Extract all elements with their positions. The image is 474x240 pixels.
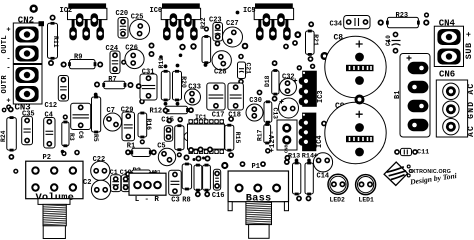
svg-text:C28: C28 xyxy=(214,68,227,76)
via pad xyxy=(179,44,185,50)
svg-text:OUTL: OUTL xyxy=(1,35,9,53)
svg-text:C12: C12 xyxy=(45,102,58,110)
capacitor C30 xyxy=(246,104,263,121)
via pad below R16 xyxy=(140,139,145,144)
P2 threaded bushing xyxy=(43,204,66,225)
via pad top right corner xyxy=(424,12,429,17)
P1 right foot xyxy=(284,202,288,211)
via pad right of R1 xyxy=(151,149,157,155)
via pad xyxy=(310,64,315,69)
svg-text:IC3: IC3 xyxy=(317,90,325,103)
P1 left foot xyxy=(228,202,232,211)
capacitor C29 xyxy=(122,112,135,141)
via pad left of R2 xyxy=(125,171,131,177)
pad square xyxy=(167,109,170,112)
svg-text:C6: C6 xyxy=(77,131,84,139)
capacitor C28 xyxy=(212,51,231,70)
B1 pads xyxy=(408,62,429,131)
via pad above C30 xyxy=(257,90,263,96)
via pad xyxy=(260,161,266,167)
connector CN1 body xyxy=(129,173,166,195)
capacitor C27 xyxy=(223,27,243,47)
IC1 pin pads xyxy=(189,119,224,154)
IC5 pin pads xyxy=(256,13,291,40)
svg-text:R12: R12 xyxy=(150,108,163,116)
resistor R15 xyxy=(225,124,234,152)
via pad right of R11 bottom xyxy=(61,62,66,67)
svg-text:R11: R11 xyxy=(52,36,59,48)
svg-text:LED2: LED2 xyxy=(330,196,346,203)
via pad xyxy=(121,60,126,65)
capacitor C25 xyxy=(130,19,150,39)
svg-text:R8: R8 xyxy=(182,196,190,204)
CN3 pad 1 xyxy=(15,67,38,83)
via pad below R13 xyxy=(296,196,302,202)
svg-text:R3: R3 xyxy=(68,133,75,141)
resistor R11 xyxy=(48,22,58,60)
resistor R8 xyxy=(182,163,191,191)
capacitor C24 xyxy=(110,51,120,74)
via pad below R15 xyxy=(228,152,234,158)
CN4 pad 1 xyxy=(437,29,460,45)
capacitor C16 xyxy=(213,169,220,190)
svg-text:C14: C14 xyxy=(317,173,330,181)
via pad above R21 xyxy=(308,21,314,27)
via pad above C21 xyxy=(238,54,244,60)
svg-text:CN6: CN6 xyxy=(439,70,455,80)
via pad below R4 xyxy=(204,191,210,197)
svg-text:IC5: IC5 xyxy=(243,7,256,15)
svg-text:R22: R22 xyxy=(200,17,207,29)
via pad above R15 xyxy=(228,116,234,122)
capacitor C7 xyxy=(104,113,122,131)
resistor R1 xyxy=(130,148,151,156)
LED LED1 xyxy=(356,175,376,195)
P2 shaft xyxy=(43,226,65,239)
svg-text:C20: C20 xyxy=(116,10,129,18)
resistor R7 xyxy=(102,81,126,89)
svg-text:SUB +: SUB + xyxy=(464,31,474,59)
via pad below R11 xyxy=(48,60,54,66)
via pad xyxy=(292,40,298,46)
via pad above R16 xyxy=(139,99,145,105)
via pad xyxy=(242,43,249,50)
resistor R4 xyxy=(203,164,211,192)
IC5 leads xyxy=(258,14,288,28)
resistor R24 xyxy=(7,116,16,151)
svg-text:R17: R17 xyxy=(257,129,264,141)
IC6 pin pads xyxy=(163,13,198,40)
via pad left of C31 xyxy=(136,83,142,89)
pad below R19 xyxy=(164,102,168,106)
svg-text:IC2: IC2 xyxy=(60,7,73,15)
via pad above R22 xyxy=(204,26,209,31)
resistor R12 xyxy=(164,106,189,114)
via pad xyxy=(297,65,302,70)
CN3 pad 2 xyxy=(15,86,38,102)
IC2 pin pads xyxy=(69,13,104,40)
connector CN2 body xyxy=(13,23,42,64)
logo XTRONIC diamond xyxy=(384,162,408,185)
capacitor C2 xyxy=(91,180,110,199)
capacitor C34 xyxy=(344,16,370,29)
via pad below R14 xyxy=(306,196,312,202)
via pad above D18 xyxy=(272,60,278,66)
CN2 pad 1 xyxy=(15,27,38,43)
via pad xyxy=(321,52,329,60)
capacitor C33 xyxy=(185,89,201,105)
svg-text:+: + xyxy=(6,27,10,35)
resistor R16 xyxy=(138,112,147,139)
capacitor C4 xyxy=(44,118,55,149)
pad above R5 xyxy=(94,93,98,97)
via pad top-left xyxy=(30,5,38,13)
capacitor C17 xyxy=(207,83,225,110)
svg-text:C34: C34 xyxy=(330,20,343,28)
via pad below R24 xyxy=(9,154,15,160)
op-amp IC5 body xyxy=(254,8,293,19)
via pad above R10 xyxy=(177,117,183,123)
resistor R23 xyxy=(386,17,420,27)
svg-text:L - R: L - R xyxy=(135,196,160,204)
capacitor C11 xyxy=(394,148,418,155)
pad xyxy=(236,11,240,15)
svg-text:R24: R24 xyxy=(0,130,7,142)
svg-text:C2: C2 xyxy=(83,179,91,187)
power amplifier IC IC6 heatsink tab xyxy=(162,3,200,8)
potentiometer P2 body xyxy=(26,161,83,199)
label + (B1) xyxy=(407,56,412,61)
IC6 leads xyxy=(165,14,195,28)
svg-text:R16: R16 xyxy=(145,119,152,131)
resistor R3 xyxy=(62,121,69,148)
svg-text:IC6: IC6 xyxy=(150,7,163,15)
potentiometer P1 body xyxy=(228,171,288,202)
resistor R20 xyxy=(173,70,182,102)
via pad right of IC4 xyxy=(321,121,327,127)
svg-text:-: - xyxy=(6,65,10,73)
via pad left of R23 xyxy=(378,20,384,26)
via pad below R17 xyxy=(265,148,271,154)
op-amp IC1 body xyxy=(184,124,224,149)
power amplifier IC IC2 heatsink tab xyxy=(68,3,106,8)
op-amp IC6 body xyxy=(161,8,200,19)
via pad xyxy=(283,44,289,50)
power amplifier IC IC5 heatsink tab xyxy=(255,3,293,8)
header IC3 body xyxy=(299,71,317,107)
resistor R13 xyxy=(293,162,301,196)
op-amp IC2 body xyxy=(68,8,107,19)
CN2 pad 2 xyxy=(15,46,38,62)
capacitor C13 (small) xyxy=(111,175,121,192)
resistor R9 xyxy=(68,60,96,69)
header IC4 body xyxy=(299,113,317,152)
logo pads xyxy=(407,165,411,169)
capacitor C12 xyxy=(58,76,68,102)
capacitor C21 xyxy=(238,62,246,79)
resistor R14 xyxy=(305,162,313,196)
svg-text:C3: C3 xyxy=(171,196,179,204)
via pads cluster above R8 xyxy=(188,147,194,153)
junction pad between C8 and C9 xyxy=(355,95,365,105)
capacitor C10 xyxy=(387,32,401,54)
pad above R14 xyxy=(307,159,311,163)
via pad below CN8 xyxy=(285,155,291,161)
svg-text:R21: R21 xyxy=(312,34,319,46)
via pad above C16 xyxy=(221,162,228,169)
via pad left of R1 xyxy=(125,149,131,155)
svg-text:C17: C17 xyxy=(212,111,225,119)
capacitor C35 xyxy=(22,116,33,144)
via pad below R21 xyxy=(308,56,314,62)
pad xyxy=(179,54,183,58)
svg-text:B1: B1 xyxy=(394,91,402,99)
via pad right of R12 xyxy=(188,107,194,113)
via pad left of R9 xyxy=(61,62,67,68)
resistor R10 xyxy=(175,124,184,151)
capacitor C31 xyxy=(140,74,157,100)
via pad xyxy=(284,159,290,165)
svg-text:C11: C11 xyxy=(417,149,429,157)
resistor R19 xyxy=(161,70,170,102)
via pad right of R2 xyxy=(151,171,157,177)
via pad above R11 xyxy=(50,15,56,21)
via pad xyxy=(149,43,155,49)
capacitor C3 xyxy=(169,170,182,195)
bridge rectifier B1 body xyxy=(400,54,430,138)
pad below R22 xyxy=(204,63,208,67)
via pad xyxy=(13,169,18,174)
pad xyxy=(202,157,205,160)
CN6 pad 2 xyxy=(443,101,459,117)
svg-text:C21: C21 xyxy=(244,63,251,75)
via pad below C21 xyxy=(238,79,244,85)
via pad xyxy=(240,161,246,167)
connector CN4 body xyxy=(434,26,463,66)
svg-text:OUTR: OUTR xyxy=(1,75,9,94)
pad xyxy=(193,158,196,161)
P2 terminal dots xyxy=(32,167,76,190)
capacitor C26 xyxy=(125,49,144,68)
pad xyxy=(159,55,163,59)
via pad right of R23 xyxy=(423,20,429,26)
resistor R2 xyxy=(130,170,151,178)
svg-text:C16: C16 xyxy=(212,192,225,200)
svg-text:P1: P1 xyxy=(252,163,260,171)
pad above R20 xyxy=(176,64,180,68)
via pad right of R7 xyxy=(128,82,134,88)
diode D18 xyxy=(272,69,279,95)
via pad below R6 xyxy=(195,191,201,197)
svg-text:IC4: IC4 xyxy=(316,135,324,148)
via pad above R24 xyxy=(8,107,14,113)
capacitor C14 xyxy=(313,153,332,172)
via pad xyxy=(190,43,196,49)
P1 threaded bushing xyxy=(246,202,272,225)
resistor R17 xyxy=(264,123,271,144)
resistor R6 xyxy=(194,164,202,192)
svg-text:R15: R15 xyxy=(234,132,241,144)
capacitor C15 xyxy=(164,126,172,142)
via pad left of CN3 label xyxy=(6,104,11,109)
P2 base xyxy=(38,199,70,205)
capacitor C20 xyxy=(118,18,128,39)
pad above R19 xyxy=(164,64,168,68)
svg-text:LED1: LED1 xyxy=(359,196,375,203)
LED LED2 xyxy=(328,174,348,194)
svg-text:R20: R20 xyxy=(180,76,187,88)
via pad right of R9 xyxy=(97,62,103,68)
via pad above C15 xyxy=(167,118,173,124)
svg-text:+12V-: +12V- xyxy=(269,130,277,152)
resistor R5 xyxy=(92,96,101,134)
svg-text:+: + xyxy=(6,98,10,106)
via pad xyxy=(149,51,155,57)
svg-text:R5: R5 xyxy=(92,134,99,142)
capacitor C9 xyxy=(325,102,386,163)
CN8 pad 2 xyxy=(282,135,291,144)
capacitor C13 xyxy=(264,100,272,123)
via pad below C23 xyxy=(215,41,221,47)
P1 shaft xyxy=(249,225,270,239)
capacitor C6 xyxy=(71,103,91,129)
connector CN8 body xyxy=(277,120,297,150)
svg-text:-: - xyxy=(6,56,10,64)
pad above R13 xyxy=(295,159,299,163)
CN1 pads xyxy=(134,182,161,189)
transistor C5 xyxy=(158,148,175,165)
via pad left edge xyxy=(2,108,7,113)
capacitor C22 xyxy=(91,161,110,180)
via pad left of R21 xyxy=(294,31,301,38)
via pad below D18 xyxy=(272,96,278,102)
via pad above R3 xyxy=(63,114,68,119)
svg-text:C15: C15 xyxy=(161,117,174,125)
connector CN3 body xyxy=(13,65,42,105)
IC2 leads xyxy=(72,14,102,28)
via pad below R3 xyxy=(61,151,66,156)
P1 terminal pads xyxy=(236,185,280,192)
CN8 pad 1 xyxy=(282,123,291,132)
capacitor C18 xyxy=(228,83,244,110)
via pad xyxy=(74,150,80,156)
svg-text:C13: C13 xyxy=(272,108,279,120)
via pad left of R7 xyxy=(94,82,100,88)
svg-text:R13: R13 xyxy=(288,152,300,160)
svg-text:AC GND AC: AC GND AC xyxy=(467,83,474,137)
via pad left of R12 xyxy=(163,108,169,114)
via pad below R10 xyxy=(177,152,182,157)
CN4 pad 2 xyxy=(437,49,460,65)
pad below R20 xyxy=(176,102,180,106)
pad xyxy=(61,150,65,154)
capacitor C1 xyxy=(279,98,299,118)
connector CN6 body xyxy=(436,80,467,137)
capacitor C19 xyxy=(121,175,130,192)
CN2 pin tab xyxy=(39,21,45,26)
capacitor C23 xyxy=(213,23,223,42)
capacitor C8 xyxy=(325,36,386,97)
resistor R22 xyxy=(202,35,211,64)
resistor R21 xyxy=(306,30,315,56)
CN6 pad 1 xyxy=(443,83,459,99)
capacitor C32 xyxy=(280,79,298,96)
CN6 pad 3 xyxy=(443,119,459,135)
svg-text:D18: D18 xyxy=(264,75,271,87)
